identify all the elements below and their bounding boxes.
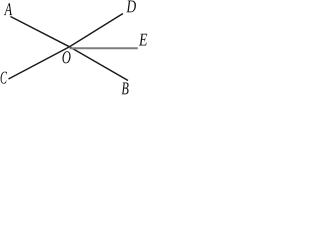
line CD xyxy=(9,14,124,80)
label C xyxy=(1,72,7,84)
label O xyxy=(62,51,70,63)
label A xyxy=(4,3,12,15)
label B xyxy=(122,83,129,95)
line AB xyxy=(11,17,129,81)
label E xyxy=(139,34,147,46)
label D xyxy=(126,1,136,13)
ray OE xyxy=(70,47,138,49)
